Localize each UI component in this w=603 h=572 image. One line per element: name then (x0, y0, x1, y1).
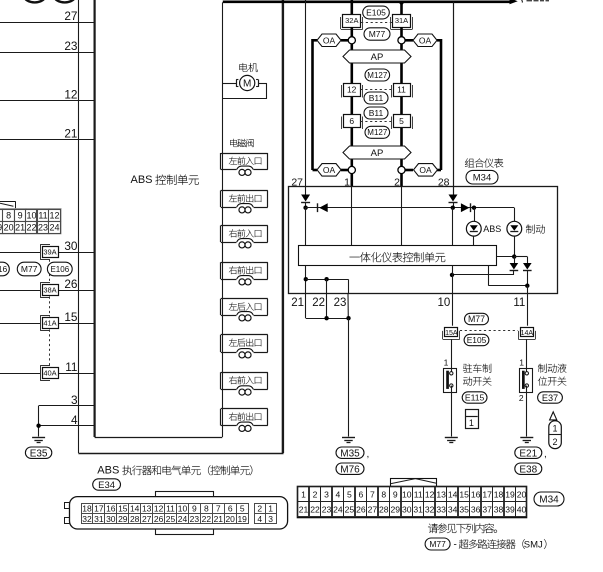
svg-text:40: 40 (517, 505, 527, 515)
svg-text:E34: E34 (98, 480, 115, 491)
connector label M16 (cut) (0, 262, 9, 276)
svg-text:-: - (454, 539, 457, 550)
svg-text:11: 11 (65, 360, 77, 374)
svg-text:M127: M127 (367, 128, 388, 137)
note see following (428, 523, 438, 533)
connector label M127 upper (365, 69, 390, 81)
svg-text:41A: 41A (43, 319, 56, 328)
svg-text:OA: OA (419, 165, 432, 175)
note M77 SMJ (425, 538, 450, 550)
svg-text:,: , (544, 449, 547, 460)
diode D6 (523, 263, 532, 270)
svg-text:30: 30 (402, 505, 412, 515)
svg-text:18: 18 (494, 489, 504, 499)
svg-text:5: 5 (347, 489, 352, 499)
svg-text:32: 32 (82, 514, 92, 524)
svg-text:33: 33 (436, 505, 446, 515)
svg-text:23: 23 (190, 514, 200, 524)
svg-text:E35: E35 (30, 448, 48, 459)
connector label M77 (top) (364, 28, 390, 40)
svg-text:29: 29 (391, 505, 401, 515)
svg-text:M77: M77 (21, 264, 38, 274)
ground label E38 (515, 463, 542, 474)
svg-text:28: 28 (130, 514, 140, 524)
svg-text:39: 39 (505, 505, 515, 515)
svg-text:15: 15 (118, 504, 128, 514)
brake fluid level switch box (520, 369, 533, 393)
svg-text:16: 16 (471, 489, 481, 499)
svg-text:22: 22 (312, 297, 325, 309)
svg-text:6: 6 (359, 489, 364, 499)
svg-text:12: 12 (64, 88, 77, 102)
svg-text:AP: AP (371, 52, 384, 63)
connector label E34 (93, 479, 121, 490)
svg-text:9: 9 (192, 504, 197, 514)
svg-text:10: 10 (178, 504, 188, 514)
svg-text:9: 9 (393, 489, 398, 499)
parking brake switch contacts (446, 371, 449, 389)
svg-text:24: 24 (333, 505, 343, 515)
svg-text:20: 20 (517, 489, 527, 499)
wire pin 30 (0, 252, 40, 254)
svg-text:21: 21 (299, 505, 309, 515)
bus wire A (306, 207, 515, 209)
svg-text:3: 3 (71, 393, 78, 407)
wire pin 26 (0, 290, 40, 292)
solenoid valve L6 左后出口 (221, 334, 268, 336)
svg-text:17: 17 (94, 504, 104, 514)
wire pin 3 (39, 405, 95, 407)
svg-text:13: 13 (436, 489, 446, 499)
wire diode to bus (305, 202, 307, 207)
svg-text:M77: M77 (468, 314, 485, 324)
fuse 38A (40, 282, 42, 297)
ground label E35 (25, 447, 51, 458)
wire pin2 down (401, 187, 403, 246)
svg-text:21: 21 (291, 297, 304, 309)
wire pin 27 (0, 22, 95, 24)
wire pin 11 (0, 373, 40, 375)
wire D5 to pin10 node (452, 274, 514, 276)
wire pin11 to fuse (527, 294, 529, 326)
wire brake node to D6 (514, 256, 527, 258)
wire color AP upper (343, 50, 411, 63)
connector label M77 (17, 262, 41, 276)
wire brake lamp bottom (514, 236, 516, 256)
svg-text:40A: 40A (43, 369, 56, 378)
wire diode to bus 28 (453, 202, 455, 207)
junction circle 2 top (398, 37, 405, 44)
solenoid valve L8 右前出口 (221, 408, 268, 410)
power feed wire (223, 0, 510, 3)
svg-text:6: 6 (228, 504, 233, 514)
connector E34 body (70, 497, 288, 529)
svg-text:ABS: ABS (131, 174, 153, 186)
svg-text:23: 23 (64, 39, 78, 53)
svg-text:ABS: ABS (483, 224, 501, 234)
svg-text:9: 9 (18, 211, 23, 221)
footnote triangle (550, 412, 557, 420)
lamp ABS (466, 221, 481, 236)
svg-text:35: 35 (459, 505, 469, 515)
wire pin 12 (0, 100, 95, 102)
svg-text:30: 30 (106, 514, 116, 524)
connector label E115 (462, 392, 487, 403)
diode D1 (301, 195, 310, 202)
svg-text:2: 2 (257, 504, 262, 514)
label brake lamp (526, 225, 535, 234)
connector label M127 lower (365, 126, 390, 138)
wire pin23 down (348, 279, 350, 294)
svg-text:12: 12 (154, 504, 164, 514)
svg-text:M34: M34 (473, 173, 491, 184)
fuse 32A (340, 17, 342, 29)
svg-text:5: 5 (399, 116, 404, 126)
connector label E37 (538, 392, 563, 403)
wire fuse to level switch (526, 339, 528, 372)
label parking brake switch (463, 364, 472, 373)
wire pin28 into meter (453, 187, 455, 195)
ABS control unit inner box (93, 0, 95, 437)
wire pin 28 vertical (453, 2, 455, 187)
svg-text:11: 11 (38, 211, 47, 221)
svg-text:15: 15 (459, 489, 469, 499)
wire pin11 down (527, 286, 529, 294)
svg-text:M34: M34 (539, 495, 559, 506)
svg-text:M: M (243, 79, 251, 90)
wire pin1 down (351, 187, 353, 246)
junction dot pin11 node (525, 284, 529, 288)
svg-text:32: 32 (425, 505, 435, 515)
svg-text:31A: 31A (395, 16, 408, 25)
junction dot 22 (324, 277, 328, 281)
svg-text:16: 16 (0, 264, 7, 274)
svg-text:19: 19 (237, 514, 247, 524)
svg-text:18: 18 (82, 504, 92, 514)
svg-text:M127: M127 (367, 71, 388, 80)
wire motor (222, 83, 236, 85)
terminal box 6 (341, 117, 343, 130)
wire pin28 chain down (452, 208, 454, 246)
cut text top right (521, 0, 524, 3)
svg-text:23: 23 (322, 505, 332, 515)
junction dot pin10 node (450, 273, 454, 277)
fuse 14A (518, 331, 520, 339)
connector E34 cells (82, 504, 94, 514)
junction dot 27-bus (303, 206, 307, 210)
svg-text:11: 11 (397, 85, 406, 95)
solenoid valve L3 右前入口 (221, 225, 268, 227)
svg-text:,: , (367, 449, 370, 460)
svg-text:14A: 14A (521, 330, 534, 337)
svg-text:B11: B11 (369, 93, 384, 103)
svg-text:11: 11 (513, 297, 525, 309)
wire color OA top-right (413, 34, 437, 47)
connector label (cut, top-left) A (24, 0, 46, 2)
brake fluid level switch contacts (522, 371, 525, 389)
svg-text:31: 31 (413, 505, 423, 515)
svg-text:3: 3 (324, 489, 329, 499)
svg-text:11: 11 (414, 489, 423, 499)
terminal dashed link 12-11 (361, 89, 393, 91)
connector M34 grid (298, 487, 527, 518)
connector label E106 (47, 262, 72, 276)
svg-text:E105: E105 (467, 335, 487, 345)
svg-text:27: 27 (64, 9, 77, 23)
svg-text:ABS: ABS (97, 465, 119, 477)
svg-text:20: 20 (4, 223, 14, 233)
wire pin 4 (39, 425, 95, 427)
svg-text:38A: 38A (43, 286, 56, 295)
svg-text:12: 12 (49, 211, 59, 221)
ground label E21 (515, 447, 542, 458)
wire OA loop right (405, 39, 413, 42)
wire 23 below (347, 294, 349, 319)
footnote box 1 (466, 410, 479, 429)
svg-text:14: 14 (130, 504, 140, 514)
diode D5 (510, 263, 519, 270)
svg-text:37: 37 (482, 505, 492, 515)
svg-text:31: 31 (94, 514, 104, 524)
wire AP trunk left (350, 44, 353, 187)
svg-text:16: 16 (106, 504, 116, 514)
svg-text:8: 8 (204, 504, 209, 514)
solenoid valve L4 右前出口 (221, 262, 268, 264)
svg-text:6: 6 (349, 116, 354, 126)
connector label M34 (top) (466, 170, 498, 184)
fuse dashed link 32A-31A (361, 22, 392, 24)
wire pin 27 vertical (305, 0, 307, 187)
svg-text:13: 13 (142, 504, 152, 514)
wire ABS lamp top (474, 208, 476, 222)
wire pin22 down (326, 279, 328, 294)
svg-text:8: 8 (381, 489, 386, 499)
wire D6 bottom (527, 271, 529, 286)
wire pin21 out (305, 265, 307, 293)
svg-text:14: 14 (448, 489, 458, 499)
svg-text:1: 1 (552, 424, 557, 434)
svg-text:10: 10 (26, 211, 36, 221)
fuse 41A (40, 315, 42, 330)
wire fuse to park switch (451, 339, 453, 372)
ground park switch (445, 437, 458, 439)
wire 31A branch (400, 3, 403, 14)
svg-text:27: 27 (368, 505, 378, 515)
svg-text:29: 29 (118, 514, 128, 524)
wire color OA top-left (317, 34, 341, 47)
wire level switch to ground (526, 386, 528, 437)
terminal dashed link 6-5 (361, 121, 393, 123)
connector E34 bottom tab (156, 529, 214, 535)
wire pin 15 (0, 323, 40, 325)
connector label M34 (bottom) (534, 492, 564, 506)
wire color OA bottom-left (317, 164, 341, 177)
svg-text:5: 5 (240, 504, 245, 514)
svg-text:4: 4 (71, 413, 78, 427)
parking brake switch box (444, 369, 457, 393)
diode D2 (to pin27) (319, 203, 328, 212)
svg-text:12: 12 (347, 85, 357, 95)
svg-text:2: 2 (519, 393, 524, 403)
svg-text:1: 1 (519, 357, 524, 367)
svg-text:8: 8 (6, 211, 11, 221)
connector grid cells (0, 209, 60, 233)
svg-text:2: 2 (552, 437, 557, 447)
wire color AP lower (343, 146, 411, 159)
svg-text:27: 27 (142, 514, 152, 524)
svg-text:4: 4 (257, 514, 262, 524)
svg-text:21: 21 (214, 514, 224, 524)
svg-text:M77: M77 (369, 29, 386, 39)
connector E34 left notches (65, 503, 70, 509)
solenoid valve L5 左后入口 (221, 298, 268, 300)
ground label M35 (336, 447, 364, 458)
junction circle 1 bottom (348, 166, 355, 173)
terminal box 11 (391, 85, 393, 98)
svg-text:22: 22 (202, 514, 212, 524)
svg-text:21: 21 (15, 223, 25, 233)
junction dot 21 (304, 277, 308, 281)
svg-text:2: 2 (313, 489, 318, 499)
ground M35/M76 (342, 437, 355, 439)
svg-text:25: 25 (345, 505, 355, 515)
svg-text:22: 22 (310, 505, 320, 515)
svg-text:SMJ: SMJ (524, 539, 543, 550)
connector E34 top tab (156, 492, 214, 498)
solenoid valve L7 右前入口 (221, 372, 268, 374)
svg-text:25: 25 (166, 514, 176, 524)
terminal box 5 (391, 117, 393, 130)
svg-text:26: 26 (154, 514, 164, 524)
svg-text:M76: M76 (340, 464, 360, 475)
motor M1 (236, 80, 238, 87)
svg-text:7: 7 (370, 489, 375, 499)
svg-text:24: 24 (178, 514, 188, 524)
connector label B11 lower (364, 107, 388, 119)
connector label (cut, top-left) B (54, 0, 76, 2)
svg-text:10: 10 (402, 489, 412, 499)
svg-text:15A: 15A (445, 330, 458, 337)
wire 21 below (305, 294, 307, 319)
svg-text:B11: B11 (369, 108, 384, 118)
wire pin 23 (0, 52, 95, 54)
wire park switch to ground (451, 386, 453, 437)
wire 22 below (326, 294, 328, 319)
connector label B11 upper (364, 92, 388, 104)
connector grid E106 (cut) outline (0, 201, 15, 203)
label motor (239, 63, 247, 72)
svg-text:15: 15 (64, 310, 78, 324)
wire pin 21 (0, 139, 95, 141)
junction dot 28-bus (451, 206, 455, 210)
svg-text:E38: E38 (519, 464, 537, 475)
fuse block dashed link (49, 260, 51, 284)
fuse 40A (40, 365, 42, 380)
svg-text:M35: M35 (340, 448, 360, 459)
label solenoid valves (230, 139, 237, 147)
unified meter control unit box (299, 246, 497, 266)
terminal box 12 (341, 85, 343, 98)
ABS actuator outer box E34 (78, 0, 80, 453)
footnote capsule 1/2 (549, 421, 562, 449)
wire OA loop left (341, 39, 348, 42)
svg-text:19: 19 (505, 489, 515, 499)
svg-text:30: 30 (64, 239, 78, 253)
svg-text:E105: E105 (366, 8, 386, 18)
svg-text:39A: 39A (43, 248, 56, 257)
junction dot 23 merge (346, 316, 350, 320)
wire pin10 down (452, 265, 454, 293)
svg-text:36: 36 (471, 505, 481, 515)
junction dot 22 merge (324, 316, 328, 320)
svg-text:4: 4 (336, 489, 341, 499)
wire to diode D5 (514, 257, 516, 263)
connector label E105 (363, 6, 390, 19)
wire box to brake node (497, 256, 515, 258)
junction triangle on feed (397, 1, 406, 6)
wire 21-22-23 bridge (306, 279, 348, 281)
connector label E105 (mid) (464, 334, 489, 345)
svg-text:E37: E37 (542, 393, 558, 403)
svg-text:AP: AP (371, 148, 384, 159)
fuse 39A (40, 244, 42, 259)
junction pins 3-4 (36, 424, 40, 428)
solenoid valve L2 左前出口 (221, 190, 268, 192)
fuse 15A (442, 331, 444, 339)
wire D5 bottom (513, 271, 515, 275)
svg-text:32A: 32A (345, 16, 358, 25)
svg-text:11: 11 (166, 504, 175, 514)
wire ABS lamp bottom (473, 236, 475, 246)
ground E21/E38 (520, 437, 533, 439)
svg-text:7: 7 (216, 504, 221, 514)
label brake fluid level switch (538, 364, 547, 373)
svg-text:OA: OA (323, 35, 336, 45)
svg-text:12: 12 (425, 489, 435, 499)
svg-text:21: 21 (64, 127, 77, 141)
solenoid valve L1 左前入口 (221, 153, 268, 155)
svg-text:M77: M77 (429, 539, 446, 549)
svg-text:24: 24 (49, 223, 59, 233)
label unified meter control unit (350, 247, 360, 267)
svg-text:3: 3 (268, 514, 273, 524)
wire pin27 into meter (305, 187, 307, 195)
svg-text:23: 23 (38, 223, 48, 233)
power feed arrow (510, 0, 518, 4)
ground E35 (32, 437, 45, 439)
svg-text:17: 17 (482, 489, 492, 499)
fuse dashed link 15A-14A (460, 330, 518, 332)
svg-text:34: 34 (448, 505, 458, 515)
ground label M76 (336, 463, 364, 474)
svg-text:26: 26 (356, 505, 366, 515)
junction circle 1 top (348, 37, 355, 44)
junction dot lamp ABS (472, 206, 476, 210)
svg-text:19: 19 (0, 223, 2, 233)
connector label M77 (mid) (465, 313, 489, 324)
svg-text:1: 1 (444, 357, 449, 367)
wire 32A branch (350, 0, 353, 14)
svg-text:E115: E115 (465, 393, 485, 403)
lamp brake (507, 221, 522, 236)
wire meter ground (348, 318, 350, 436)
svg-text:20: 20 (225, 514, 235, 524)
wire color OA bottom-right (414, 164, 438, 177)
wire AP trunk right (400, 44, 403, 187)
wire pin10 to fuse (452, 294, 454, 326)
wire fuse to junction circle R (400, 27, 403, 37)
connector M34 tab (391, 479, 437, 487)
